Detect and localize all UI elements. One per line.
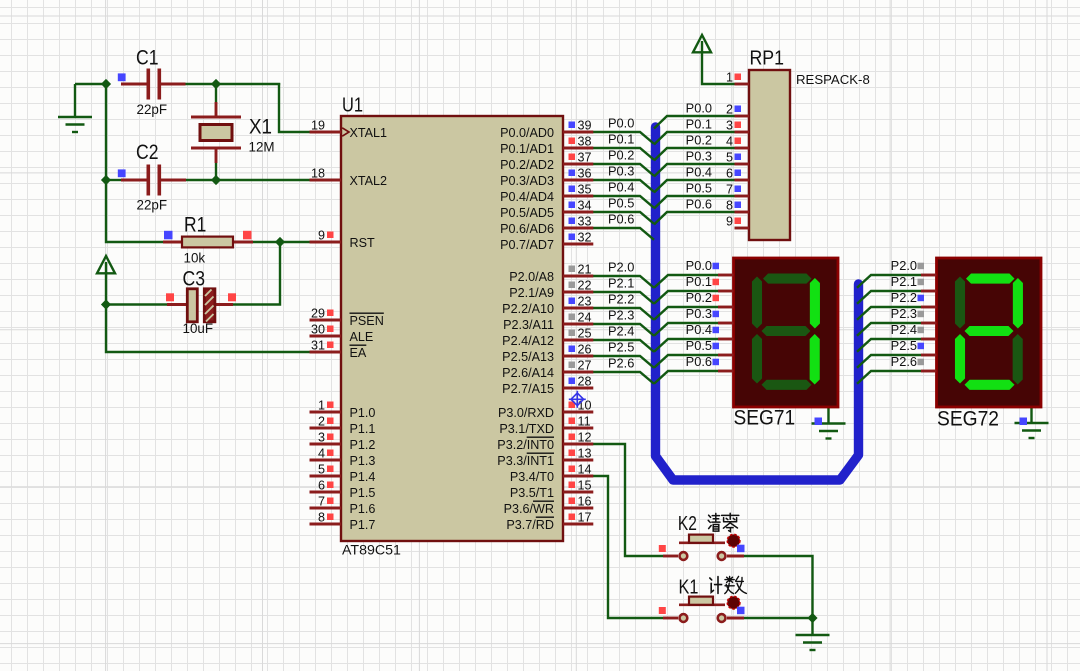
wire U1 P0.4 to bus: [592, 196, 654, 208]
svg-text:22: 22: [578, 279, 592, 293]
wire left vertical C1 node to R1 row: [106, 84, 163, 242]
wire U1 P3.2 to button K2: [592, 444, 663, 556]
wire R1 right to RST node: [253, 241, 280, 243]
push button K1: [663, 617, 678, 620]
svg-text:P0.5/AD5: P0.5/AD5: [500, 206, 554, 220]
svg-text:P0.2/AD2: P0.2/AD2: [500, 158, 554, 172]
SEG71 pin 5 stub: [718, 354, 734, 357]
wire U1 P0.6 to bus: [592, 228, 654, 240]
RP1 pin 2: [735, 115, 750, 118]
wire power arrow to RP1 pin 1: [702, 51, 735, 84]
SEG72 pin 5 stub: [921, 354, 937, 357]
svg-text:P0.4: P0.4: [686, 322, 712, 337]
SEG72 pin 3 stub: [921, 322, 937, 325]
svg-text:15: 15: [578, 479, 592, 493]
svg-text:P0.4/AD4: P0.4/AD4: [500, 190, 554, 204]
svg-text:SEG71: SEG71: [734, 407, 796, 430]
SEG71 pin 0 stub: [718, 274, 734, 277]
wire RST node to RST pin: [280, 241, 311, 243]
wire RST node down to C3 right corner: [233, 242, 280, 305]
svg-text:P2.0/A8: P2.0/A8: [509, 270, 554, 284]
U1 pin 17 P3.7/RD: [563, 523, 593, 526]
U1 pin 15 P3.5/T1: [563, 491, 593, 494]
svg-text:P3.1/TXD: P3.1/TXD: [499, 422, 554, 436]
svg-text:P1.0: P1.0: [350, 406, 376, 420]
RP1 pin 5: [735, 163, 750, 166]
wire U1 P0.2 to bus: [592, 164, 654, 176]
ground (SEG71): [827, 407, 829, 424]
svg-text:R1: R1: [184, 213, 206, 236]
svg-text:P2.3: P2.3: [608, 308, 634, 323]
SEG72 pin 4 stub: [921, 338, 937, 341]
U1 pin 18 XTAL2: [310, 179, 342, 182]
wire U1 P0.3 to bus: [592, 180, 654, 192]
svg-text:P0.1/AD1: P0.1/AD1: [500, 142, 554, 156]
wire U1 P2.0 to bus: [592, 276, 654, 288]
SEG71 pin 1 stub: [718, 290, 734, 293]
svg-text:21: 21: [578, 263, 592, 277]
svg-text:P1.4: P1.4: [350, 470, 376, 484]
wire U1 P0.1 to bus: [592, 148, 654, 160]
U1 pin 19 XTAL1: [310, 131, 342, 134]
SEG71 pin 6 stub: [718, 370, 734, 373]
svg-text:P2.5: P2.5: [891, 338, 917, 353]
RP1 pin 3: [735, 131, 750, 134]
svg-text:P1.1: P1.1: [350, 422, 376, 436]
wire bus to SEG72 input P2.2: [857, 307, 921, 320]
svg-text:P2.2: P2.2: [891, 290, 917, 305]
svg-text:31: 31: [311, 339, 325, 353]
svg-text:P0.2: P0.2: [608, 148, 634, 163]
svg-text:P2.1/A9: P2.1/A9: [509, 286, 554, 300]
U1 pin 31 EA: [310, 351, 342, 354]
U1 pin 21 P2.0/A8: [563, 275, 593, 278]
U1 pin 14 P3.4/T0: [563, 475, 593, 478]
junction node buttons ground: [807, 613, 817, 623]
crystal X1: [215, 102, 218, 117]
IC U1 AT89C51 microcontroller body: [341, 116, 563, 541]
svg-text:C1: C1: [136, 47, 159, 70]
svg-text:4: 4: [726, 135, 733, 149]
SEG72 pin 6 stub: [921, 370, 937, 373]
RP1 pin 4: [735, 147, 750, 150]
svg-text:7: 7: [726, 183, 733, 197]
wire bus to SEG71 input P0.5: [654, 355, 718, 368]
svg-text:C3: C3: [183, 268, 206, 291]
svg-text:P0.1: P0.1: [686, 274, 712, 289]
svg-text:P0.6/AD6: P0.6/AD6: [500, 222, 554, 236]
capacitor C2: [121, 179, 147, 182]
origin marker (blue crosshair): [569, 391, 586, 408]
svg-text:26: 26: [578, 343, 592, 357]
svg-text:P0.0: P0.0: [686, 258, 712, 273]
svg-text:P0.5: P0.5: [686, 181, 712, 196]
svg-text:P1.7: P1.7: [350, 518, 376, 532]
SEG72 pin 1 stub: [921, 290, 937, 293]
U1 pin 10 P3.0/RXD: [563, 411, 593, 414]
wire bus to SEG71 input P0.3: [654, 323, 718, 336]
svg-text:23: 23: [578, 295, 592, 309]
svg-text:P3.2/INT0: P3.2/INT0: [497, 438, 554, 452]
svg-text:P1.5: P1.5: [350, 486, 376, 500]
svg-text:22pF: 22pF: [137, 102, 168, 117]
svg-text:P1.6: P1.6: [350, 502, 376, 516]
svg-text:K2: K2: [678, 512, 697, 535]
U1 pin 16 P3.6/WR: [563, 507, 593, 510]
U1 pin 13 P3.3/INT1: [563, 459, 593, 462]
svg-text:XTAL1: XTAL1: [350, 126, 388, 140]
svg-text:PSEN: PSEN: [350, 314, 384, 328]
U1 pin 26 P2.5/A13: [563, 355, 593, 358]
U1 pin 4 P1.3: [310, 459, 342, 462]
svg-text:35: 35: [578, 183, 592, 197]
U1 pin 39 P0.0/AD0: [563, 131, 593, 134]
U1 pin 24 P2.3/A11: [563, 323, 593, 326]
svg-text:18: 18: [311, 167, 325, 181]
U1 pin 12 P3.2/INT0: [563, 443, 593, 446]
U1 pin 8 P1.7: [310, 523, 342, 526]
U1 pin 33 P0.6/AD6: [563, 227, 593, 230]
wire power arrow stem to C3 node: [105, 272, 107, 305]
svg-text:P0.1: P0.1: [686, 117, 712, 132]
svg-text:P2.2: P2.2: [608, 292, 634, 307]
U1 pin 38 P0.1/AD1: [563, 147, 593, 150]
svg-text:P3.4/T0: P3.4/T0: [510, 470, 554, 484]
push button K2: [663, 555, 678, 558]
svg-text:6: 6: [318, 479, 325, 493]
wire X1 top node to corner: [216, 83, 280, 85]
wire bus to SEG71 input P0.1: [654, 291, 718, 304]
svg-text:P2.1: P2.1: [608, 276, 634, 291]
power VCC arrow (RP1): [693, 35, 711, 52]
svg-text:P0.5: P0.5: [608, 196, 634, 211]
wire bus to SEG71 input P0.0: [654, 275, 718, 288]
svg-text:4: 4: [318, 447, 325, 461]
svg-text:13: 13: [578, 447, 592, 461]
svg-text:P2.4/A12: P2.4/A12: [502, 334, 554, 348]
bus P0 (blue): [656, 127, 859, 480]
svg-text:28: 28: [578, 375, 592, 389]
svg-text:12: 12: [578, 431, 592, 445]
U1 pin 23 P2.2/A10: [563, 307, 593, 310]
svg-text:8: 8: [318, 511, 325, 525]
RP1 pin 7: [735, 195, 750, 198]
power VCC arrow (RST network): [97, 256, 115, 273]
svg-text:1: 1: [318, 399, 325, 413]
svg-text:P2.3/A11: P2.3/A11: [503, 318, 554, 332]
svg-text:12M: 12M: [249, 140, 275, 155]
svg-text:P0.4: P0.4: [686, 165, 712, 180]
svg-text:19: 19: [311, 119, 325, 133]
RP1 pin 8: [735, 211, 750, 214]
svg-text:8: 8: [726, 199, 733, 213]
wire bus to RP1 pin 4 net P0.2: [654, 148, 735, 161]
U1 pin 28 P2.7/A15: [563, 387, 593, 390]
U1 pin 11 P3.1/TXD: [563, 427, 593, 430]
svg-text:17: 17: [578, 511, 592, 525]
svg-text:10: 10: [578, 399, 592, 413]
junction node C1/GND: [101, 79, 111, 89]
svg-text:11: 11: [578, 415, 591, 429]
U1 pin 22 P2.1/A9: [563, 291, 593, 294]
wire C2 node to C2 left lead: [106, 179, 121, 181]
U1 pin 37 P0.2/AD2: [563, 163, 593, 166]
capacitor C1: [121, 83, 147, 86]
resistor pack RP1 RESPACK-8 body: [749, 70, 790, 240]
svg-text:29: 29: [311, 307, 325, 321]
wire bus to RP1 pin 2 net P0.0: [654, 116, 735, 129]
svg-text:9: 9: [726, 215, 733, 229]
svg-text:9: 9: [318, 229, 325, 243]
svg-text:P3.5/T1: P3.5/T1: [510, 486, 554, 500]
svg-text:38: 38: [578, 135, 592, 149]
U1 pin 9 RST: [310, 241, 342, 244]
svg-text:P2.0: P2.0: [608, 260, 634, 275]
svg-text:P2.7/A15: P2.7/A15: [502, 382, 554, 396]
svg-text:P2.6/A14: P2.6/A14: [502, 366, 554, 380]
wire U1 P2.6 to bus: [592, 372, 654, 384]
U1 pin 25 P2.4/A12: [563, 339, 593, 342]
junction node X1 top: [211, 79, 221, 89]
svg-text:16: 16: [578, 495, 592, 509]
wire U1 P0.0 to bus: [592, 132, 654, 144]
svg-text:EA: EA: [350, 346, 367, 360]
SEG71 pin 4 stub: [718, 338, 734, 341]
svg-text:3: 3: [726, 119, 733, 133]
wire bus to SEG72 input P2.3: [857, 323, 921, 336]
svg-text:P0.3/AD3: P0.3/AD3: [500, 174, 554, 188]
wire C3 node down to EA pin row: [106, 305, 311, 353]
junction node X1 bottom: [211, 175, 221, 185]
U1 pin 29 PSEN: [310, 319, 342, 322]
resistor R1: [163, 241, 182, 244]
svg-text:10k: 10k: [184, 251, 206, 266]
svg-text:25: 25: [578, 327, 592, 341]
wire U1 P2.3 to bus: [592, 324, 654, 336]
wire X1 bottom lead green part: [215, 163, 217, 180]
svg-text:22pF: 22pF: [137, 198, 168, 213]
svg-text:2: 2: [318, 415, 325, 429]
svg-text:P0.6: P0.6: [686, 354, 712, 369]
svg-text:XTAL2: XTAL2: [350, 174, 388, 188]
7-segment display SEG72 (showing 2): [937, 258, 1042, 407]
wire C1 right to X1 top node: [186, 83, 218, 85]
svg-text:2: 2: [726, 103, 733, 117]
wire C3 node to C3 left lead: [106, 303, 167, 305]
svg-text:P0.6: P0.6: [686, 197, 712, 212]
svg-text:RESPACK-8: RESPACK-8: [796, 72, 870, 87]
svg-text:1: 1: [726, 71, 733, 85]
U1 pin 35 P0.4/AD4: [563, 195, 593, 198]
SEG72 pin 2 stub: [921, 306, 937, 309]
U1 pin 6 P1.5: [310, 491, 342, 494]
wire bus to SEG72 input P2.0: [857, 275, 921, 288]
wire X1 top lead green part: [215, 84, 217, 102]
7-segment display SEG71 (showing 1): [734, 258, 839, 407]
wire U1 P2.2 to bus: [592, 308, 654, 320]
svg-text:P2.3: P2.3: [891, 306, 917, 321]
svg-text:RST: RST: [350, 236, 375, 250]
svg-text:P0.3: P0.3: [608, 164, 634, 179]
svg-text:P0.3: P0.3: [686, 306, 712, 321]
RP1 pin 9: [735, 227, 750, 230]
U1 pin 3 P1.2: [310, 443, 342, 446]
wire U1 P0.5 to bus: [592, 212, 654, 224]
svg-text:P0.7/AD7: P0.7/AD7: [500, 238, 554, 252]
svg-text:P1.2: P1.2: [350, 438, 376, 452]
svg-text:P3.3/INT1: P3.3/INT1: [497, 454, 554, 468]
RP1 pin 1: [735, 83, 750, 86]
wire bus to RP1 pin 5 net P0.3: [654, 164, 735, 177]
svg-text:P0.2: P0.2: [686, 133, 712, 148]
svg-text:P3.7/RD: P3.7/RD: [506, 518, 554, 532]
svg-text:K1: K1: [679, 575, 699, 598]
wire U1 P2.4 to bus: [592, 340, 654, 352]
svg-text:P3.0/RXD: P3.0/RXD: [498, 406, 554, 420]
svg-text:P0.5: P0.5: [686, 338, 712, 353]
wire bus to SEG72 input P2.1: [857, 291, 921, 304]
wire U1 P2.1 to bus: [592, 292, 654, 304]
RP1 pin 6: [735, 179, 750, 182]
svg-text:P0.2: P0.2: [686, 290, 712, 305]
wire corner down to XTAL1 pin: [279, 83, 311, 132]
svg-text:32: 32: [578, 231, 592, 245]
svg-text:P0.3: P0.3: [686, 149, 712, 164]
svg-text:7: 7: [318, 495, 325, 509]
U1 pin 5 P1.4: [310, 475, 342, 478]
svg-text:P2.1: P2.1: [891, 274, 917, 289]
ground (SEG72): [1030, 407, 1032, 423]
SEG72 pin 0 stub: [921, 274, 937, 277]
svg-text:27: 27: [578, 359, 592, 373]
U1 pin 7 P1.6: [310, 507, 342, 510]
svg-text:P2.2/A10: P2.2/A10: [502, 302, 554, 316]
svg-text:X1: X1: [249, 116, 272, 139]
U1 pin 1 P1.0: [310, 411, 342, 414]
wire K2 right terminal to ground rail: [744, 556, 813, 618]
wire bus to SEG71 input P0.4: [654, 339, 718, 352]
svg-text:P3.6/WR: P3.6/WR: [504, 502, 554, 516]
svg-text:36: 36: [578, 167, 592, 181]
junction node C3 left: [101, 299, 111, 309]
svg-text:P2.5/A13: P2.5/A13: [502, 350, 554, 364]
svg-text:37: 37: [578, 151, 592, 165]
svg-text:P2.6: P2.6: [608, 356, 634, 371]
wire bus to SEG72 input P2.4: [857, 339, 921, 352]
svg-text:P0.0/AD0: P0.0/AD0: [500, 126, 554, 140]
svg-text:3: 3: [318, 431, 325, 445]
U1 pin 32 P0.7/AD7: [563, 243, 593, 246]
wire bus to SEG72 input P2.6: [857, 371, 921, 384]
U1 pin 30 ALE: [310, 335, 342, 338]
ground (top left): [74, 84, 76, 117]
svg-text:P2.4: P2.4: [608, 324, 634, 339]
junction node C2 left: [101, 175, 111, 185]
svg-text:C2: C2: [136, 141, 159, 164]
U1 pin 34 P0.5/AD5: [563, 211, 593, 214]
svg-text:30: 30: [311, 323, 325, 337]
svg-text:P0.0: P0.0: [608, 116, 634, 131]
svg-text:P0.0: P0.0: [686, 101, 712, 116]
SEG71 pin 2 stub: [718, 306, 734, 309]
wire GND to C1 node, net XTAL1 top row: [75, 83, 107, 85]
wire bus to SEG71 input P0.6: [654, 371, 718, 384]
svg-text:RP1: RP1: [750, 47, 785, 70]
svg-text:10uF: 10uF: [183, 321, 214, 336]
svg-text:5: 5: [726, 151, 733, 165]
svg-text:P0.4: P0.4: [608, 180, 634, 195]
wire bus to RP1 pin 3 net P0.1: [654, 132, 735, 145]
svg-text:33: 33: [578, 215, 592, 229]
svg-text:P2.5: P2.5: [608, 340, 634, 355]
wire U1 P2.5 to bus: [592, 356, 654, 368]
wire bus to RP1 pin 8 net P0.6: [654, 212, 735, 225]
U1 pin 2 P1.1: [310, 427, 342, 430]
svg-text:14: 14: [578, 463, 592, 477]
wire bus to SEG71 input P0.2: [654, 307, 718, 320]
svg-text:P2.6: P2.6: [891, 354, 917, 369]
svg-text:P2.4: P2.4: [891, 322, 917, 337]
wire bus to SEG72 input P2.5: [857, 355, 921, 368]
svg-text:SEG72: SEG72: [937, 408, 999, 431]
svg-text:5: 5: [318, 463, 325, 477]
svg-text:34: 34: [578, 199, 592, 213]
wire bus to RP1 pin 6 net P0.4: [654, 180, 735, 193]
svg-text:P2.0: P2.0: [891, 258, 917, 273]
svg-text:AT89C51: AT89C51: [342, 543, 401, 559]
svg-text:P1.3: P1.3: [350, 454, 376, 468]
junction node RST: [275, 237, 285, 247]
wire C2 right to X1 bottom node to XTAL2 pin: [186, 179, 311, 181]
ground (buttons): [811, 618, 813, 635]
U1 pin 27 P2.6/A14: [563, 371, 593, 374]
U1 pin 36 P0.3/AD3: [563, 179, 593, 182]
svg-text:6: 6: [726, 167, 733, 181]
svg-text:39: 39: [578, 119, 592, 133]
capacitor C3 (electrolytic): [167, 303, 187, 306]
svg-text:P0.6: P0.6: [608, 212, 634, 227]
wire K1 right terminal to ground junction: [744, 617, 813, 619]
svg-text:P0.1: P0.1: [608, 132, 634, 147]
wire U1 P3.4 to button K1: [592, 476, 663, 618]
wire bus to RP1 pin 7 net P0.5: [654, 196, 735, 209]
svg-text:24: 24: [578, 311, 592, 325]
svg-text:ALE: ALE: [350, 330, 374, 344]
svg-text:U1: U1: [342, 94, 363, 116]
SEG71 pin 3 stub: [718, 322, 734, 325]
